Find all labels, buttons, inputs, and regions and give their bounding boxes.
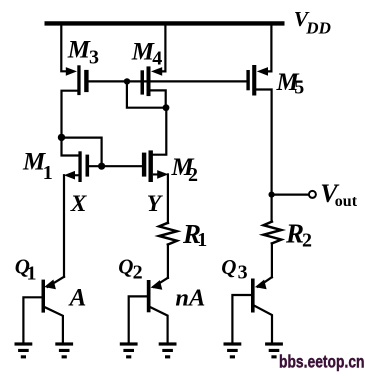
ground G2 (Q1 collector) xyxy=(55,342,73,358)
transistor Q2 base bar xyxy=(147,280,151,312)
svg-text:2: 2 xyxy=(188,164,198,186)
transistor M5 source arrow xyxy=(257,67,268,76)
label Q2 xyxy=(118,254,142,283)
ground G5 (Q3 base) xyxy=(224,342,242,358)
svg-text:out: out xyxy=(335,193,358,210)
wire node to M1 drain xyxy=(62,137,79,155)
svg-text:1: 1 xyxy=(27,263,37,285)
wire M5 source from VDD xyxy=(268,25,272,71)
label Q3 xyxy=(221,255,247,284)
transistor Q1 base bar xyxy=(42,280,46,313)
transistor M3 source arrow xyxy=(66,67,77,76)
wire M5 drain down to Vout node xyxy=(256,90,271,195)
label M2 xyxy=(171,154,199,186)
resistor R2 xyxy=(264,222,282,244)
transistor M4 source arrow xyxy=(151,67,162,76)
label M3 xyxy=(67,37,99,69)
svg-text:4: 4 xyxy=(152,47,162,69)
svg-text:2: 2 xyxy=(302,229,312,251)
Q1 collector xyxy=(45,307,63,342)
junction node gate line M3/M4 xyxy=(124,78,130,84)
transistor M4 gate bar xyxy=(141,70,145,94)
wire M4 drain to M2 drain xyxy=(153,108,166,155)
svg-text:5: 5 xyxy=(294,76,304,98)
label VDD xyxy=(294,7,331,37)
junction node M4 drain xyxy=(163,104,170,111)
svg-text:1: 1 xyxy=(197,229,207,251)
transistor M3 channel bar xyxy=(77,65,80,95)
ground G6 (Q3 collector) xyxy=(265,342,283,358)
label M5 xyxy=(276,69,305,99)
transistor M2 source lead xyxy=(153,173,159,175)
label M4 xyxy=(131,39,163,70)
Q3 emitter diagonal xyxy=(258,277,272,287)
Q3 collector xyxy=(255,306,272,343)
junction node M1 gate line xyxy=(98,163,105,170)
wire gate line M3-M4-M5 xyxy=(89,80,247,82)
Q1 base lead xyxy=(23,297,41,342)
ground G1 (Q1 base) xyxy=(15,342,33,358)
ground G4 (Q2 collector) xyxy=(159,342,177,358)
wire Vout tap xyxy=(272,194,308,196)
Q3 base lead xyxy=(232,295,251,343)
svg-text:2: 2 xyxy=(133,261,143,283)
label Vout xyxy=(320,179,357,210)
svg-text:M: M xyxy=(131,39,155,66)
svg-text:DD: DD xyxy=(305,18,331,37)
wire M4 drain down xyxy=(151,90,166,107)
transistor Q1 emitter arrow xyxy=(44,280,56,290)
label Q1 xyxy=(15,254,37,284)
wire Vout node down to R2 xyxy=(271,195,273,222)
wire gate line M1-M2 xyxy=(89,165,142,167)
wire M2 source down to R1 (node Y) xyxy=(167,174,169,223)
junction node M3 drain / M1 drain-gate xyxy=(58,134,65,141)
Q1 emitter diagonal xyxy=(48,277,65,287)
wire M3 drain down to node xyxy=(62,91,78,138)
label R2 xyxy=(285,219,312,252)
transistor Q2 emitter arrow xyxy=(151,280,163,290)
transistor M5 gate bar xyxy=(246,70,249,90)
output terminal Vout xyxy=(309,191,316,198)
wire M4 source from VDD xyxy=(162,25,166,71)
VDD rail xyxy=(45,21,285,25)
svg-text:Q: Q xyxy=(221,255,236,279)
label M1 xyxy=(22,149,53,184)
label R1 xyxy=(182,219,207,251)
transistor Q3 base bar xyxy=(251,279,255,313)
junction node Vout xyxy=(269,192,275,198)
svg-text:M: M xyxy=(67,37,91,64)
svg-text:X: X xyxy=(70,191,88,217)
svg-text:nA: nA xyxy=(175,284,205,311)
transistor M1 gate bar xyxy=(86,155,90,177)
transistor M1 source lead xyxy=(73,174,81,176)
transistor M3 gate bar xyxy=(84,70,88,92)
ground G3 (Q2 base) xyxy=(120,342,138,358)
svg-text:bbs.eetop.cn: bbs.eetop.cn xyxy=(279,352,365,372)
Q2 emitter diagonal xyxy=(154,278,168,287)
transistor Q3 emitter arrow xyxy=(255,280,267,290)
wire gate feedback M4 drain to gate line xyxy=(127,81,166,107)
resistor R1 xyxy=(159,223,177,245)
wire R2 to Q3 emitter xyxy=(271,243,273,277)
svg-text:Q: Q xyxy=(118,254,133,278)
wire M1 source down to Q1 (node X) xyxy=(63,175,65,277)
transistor M2 source arrow xyxy=(157,170,168,179)
svg-text:Y: Y xyxy=(147,191,164,217)
svg-text:A: A xyxy=(68,285,87,312)
transistor M1 channel bar xyxy=(78,151,81,182)
wire M3 source from VDD xyxy=(61,25,66,71)
svg-text:1: 1 xyxy=(43,162,53,184)
wire R1 to Q2 emitter xyxy=(167,245,169,278)
svg-text:3: 3 xyxy=(238,262,248,284)
transistor M5 channel bar xyxy=(252,65,256,96)
Q2 collector xyxy=(151,307,168,342)
transistor M2 gate bar xyxy=(142,153,146,177)
transistor M2 channel bar xyxy=(149,150,153,182)
transistor M4 channel bar xyxy=(147,66,151,96)
transistor M1 source arrow xyxy=(64,171,75,180)
Q2 base lead xyxy=(129,296,147,342)
svg-text:3: 3 xyxy=(89,46,99,68)
wire node to M1 gate (diode connection) xyxy=(62,138,102,167)
